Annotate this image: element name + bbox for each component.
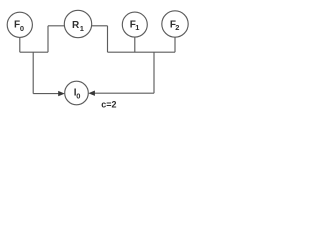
- svg-text:0: 0: [20, 24, 24, 33]
- arrowhead into I0 left: [58, 91, 65, 96]
- wire right horizontal into I0: [95, 92, 155, 94]
- svg-text:1: 1: [80, 24, 84, 33]
- arrowhead into I0 right: [88, 91, 95, 96]
- svg-text:0: 0: [76, 92, 80, 101]
- node F0 circle: [7, 12, 32, 37]
- wire left horizontal into I0: [33, 93, 59, 95]
- wire R1 right horizontal: [92, 25, 108, 27]
- wire left down vertical: [32, 52, 34, 93]
- wire F1 bottom vertical: [134, 37, 136, 52]
- wire F2 bottom vertical: [174, 37, 176, 52]
- wire F0 bottom vertical: [19, 37, 21, 52]
- node F1 circle: [122, 12, 147, 37]
- node I0 circle: [65, 81, 89, 105]
- node F2 circle: [162, 11, 188, 37]
- wire left step vertical: [47, 26, 49, 52]
- svg-text:c=2: c=2: [101, 99, 116, 109]
- wire right bus horizontal: [108, 51, 176, 53]
- svg-text:1: 1: [135, 23, 139, 32]
- svg-text:2: 2: [175, 23, 179, 32]
- wire left bus horizontal: [20, 51, 48, 53]
- wire left step horizontal to R1: [48, 25, 64, 27]
- node R1 circle: [64, 10, 91, 37]
- wire right mid vertical down: [153, 52, 155, 93]
- wire right step vertical: [107, 26, 109, 52]
- svg-text:R: R: [72, 20, 80, 31]
